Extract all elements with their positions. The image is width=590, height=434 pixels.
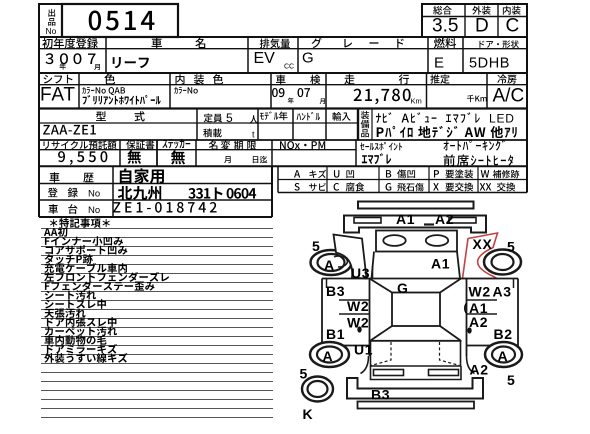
svg-text:D: D (475, 16, 489, 37)
svg-text:5: 5 (507, 372, 515, 388)
front top strip (358, 202, 474, 209)
sales point cell (360, 143, 364, 151)
svg-text:G: G (302, 50, 314, 67)
table outer verticals (38, 37, 40, 217)
svg-text:B3: B3 (371, 387, 390, 403)
front right wheel (484, 250, 521, 275)
svg-text:A1: A1 (396, 211, 415, 227)
body top line (322, 278, 518, 280)
svg-text:(: ( (464, 302, 468, 314)
tailgate (371, 341, 461, 366)
band D type row (96, 111, 106, 121)
grade box (422, 4, 527, 37)
band B values (46, 53, 54, 64)
svg-text:A/C: A/C (493, 86, 525, 107)
svg-text:W2: W2 (347, 298, 369, 314)
svg-text:W2: W2 (347, 315, 369, 331)
svg-text:EV: EV (254, 50, 276, 67)
svg-text:A: A (498, 348, 509, 364)
band B headers (42, 38, 52, 48)
svg-text:U1: U1 (354, 342, 373, 358)
left front fender (334, 235, 367, 279)
roof (392, 293, 440, 327)
equipment cell (361, 111, 369, 119)
svg-text:A: A (323, 348, 334, 364)
svg-text:A2: A2 (469, 314, 488, 330)
right side panel (467, 279, 519, 357)
rear bumper (347, 378, 483, 399)
svg-text:B1: B1 (326, 326, 345, 342)
front left wheel (311, 250, 352, 275)
band D column dividers (196, 109, 198, 141)
side mirror marks (326, 279, 328, 289)
svg-text:A3: A3 (493, 284, 512, 300)
svg-text:No: No (46, 26, 57, 36)
svg-text:5: 5 (507, 239, 515, 255)
rear quarter lines (361, 356, 475, 374)
rear right wheel (485, 342, 522, 367)
lot no label (48, 9, 55, 17)
svg-text:CC: CC (284, 64, 294, 71)
svg-text:G: G (397, 280, 409, 296)
svg-text:A2: A2 (435, 211, 454, 227)
windshield (370, 279, 462, 293)
band C column dividers (78, 73, 80, 109)
svg-text:E: E (434, 55, 444, 72)
svg-text:3.5: 3.5 (432, 16, 458, 37)
bottom strip (358, 402, 475, 409)
rear panel (371, 366, 462, 380)
damage legend text (294, 170, 300, 177)
svg-text:LED: LED (489, 112, 515, 126)
svg-text:Km: Km (411, 97, 422, 106)
damage legend grid (277, 166, 279, 192)
rear window (371, 326, 461, 341)
svg-text:K: K (303, 406, 314, 422)
history block (39, 183, 272, 185)
right front fender replaced (red outline) (463, 233, 498, 279)
hood (372, 252, 461, 279)
left side panel (322, 279, 370, 357)
band E recycle row (43, 141, 48, 149)
svg-text:t: t (252, 130, 255, 140)
band B column dividers (105, 37, 107, 73)
svg-text:A1: A1 (431, 256, 450, 272)
rear left wheel (310, 342, 349, 367)
svg-text:A2: A2 (470, 362, 489, 378)
svg-text:5: 5 (312, 238, 320, 254)
front bumper (344, 216, 486, 233)
svg-text:XX: XX (473, 236, 493, 252)
band E column dividers (119, 140, 121, 166)
svg-text:No: No (88, 205, 100, 216)
svg-text:No: No (88, 189, 100, 200)
svg-text:U3: U3 (351, 265, 370, 281)
svg-text:W2: W2 (469, 284, 491, 300)
svg-text:FAT: FAT (40, 85, 76, 106)
svg-text:B2: B2 (494, 326, 513, 342)
svg-text:B3: B3 (326, 283, 345, 299)
spare tire (302, 377, 333, 402)
headlight panel (376, 231, 457, 252)
lot number box (39, 4, 62, 37)
door hinge dots (358, 327, 361, 332)
svg-text:5: 5 (300, 366, 308, 382)
svg-text:C: C (506, 16, 520, 37)
svg-text:A: A (324, 257, 335, 273)
notes list (50, 219, 57, 227)
history rows (50, 172, 60, 182)
lot number 0514 (89, 11, 101, 31)
table horizontal rules (39, 36, 527, 38)
band C headers (43, 75, 52, 84)
svg-text:5: 5 (226, 111, 233, 125)
svg-text:5DHB: 5DHB (469, 56, 510, 72)
grade headers (433, 6, 442, 15)
